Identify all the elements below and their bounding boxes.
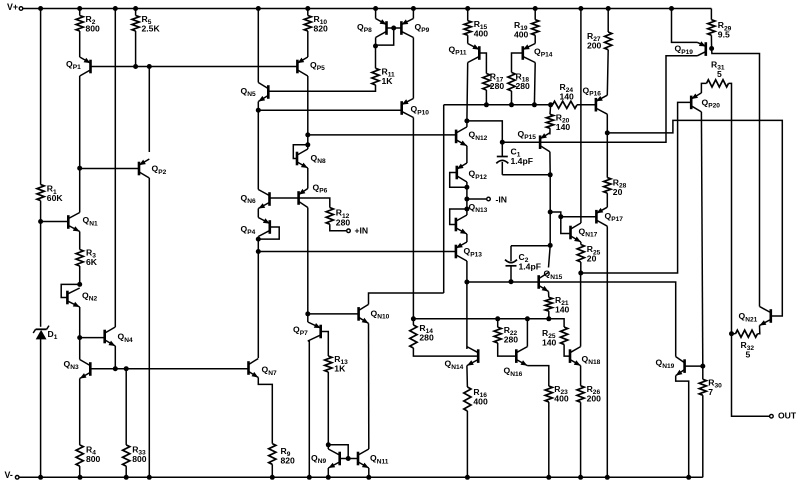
- terminal V-: [15, 476, 19, 480]
- wire node to QP7 emitter: [307, 314, 309, 322]
- transistor QN21: [769, 309, 772, 323]
- transistor QP6: [297, 191, 300, 205]
- junction on V+ rail: [133, 6, 138, 11]
- wire V- bottom rail: [17, 476, 703, 478]
- transistor QP9: [400, 21, 403, 35]
- wire R16 to V- rail: [466, 411, 468, 477]
- svg-text:N3: N3: [70, 364, 79, 371]
- wire R29 to QP19 base node: [710, 35, 712, 48]
- wire QN18 collector up to node: [580, 273, 582, 347]
- wire column to QN15 collector: [549, 245, 551, 267]
- wire node to R20: [549, 105, 552, 115]
- wire QN13 emitter to QP13 emitter: [466, 234, 468, 242]
- wire R19 to QP14 emitter: [534, 35, 536, 43]
- wire R4 to V- rail: [79, 466, 81, 477]
- wire QP2 collector to V- rail: [148, 178, 150, 477]
- wire QP10 base line: [258, 109, 401, 111]
- svg-text:P14: P14: [541, 52, 553, 59]
- node R14 top / bus: [411, 316, 416, 321]
- junction on V- rail: [147, 475, 152, 480]
- node R1 bottom / QN1 base: [38, 219, 43, 224]
- wire V+ rail to R2: [79, 9, 81, 16]
- node R17 bottom on bus: [484, 102, 489, 107]
- wire R17 to bus: [485, 90, 487, 105]
- wire QP11 collector down: [466, 63, 469, 121]
- svg-text:N4: N4: [124, 337, 133, 344]
- svg-text:N9: N9: [318, 458, 327, 465]
- svg-text:200: 200: [587, 40, 602, 50]
- wire QP4 base loop: [258, 227, 279, 239]
- wire node to QN8 node: [307, 135, 309, 145]
- node QN4 emitter / QN3 base: [113, 366, 118, 371]
- svg-text:820: 820: [281, 455, 296, 465]
- wire QP12 collector stub: [466, 182, 468, 187]
- junction on V+ rail: [305, 6, 310, 11]
- wire node to -IN node: [466, 187, 468, 199]
- wire down to QN17 base: [561, 217, 571, 234]
- wire QP17 collector to V- rail: [606, 226, 608, 477]
- wire QN16 collector up: [526, 319, 528, 347]
- svg-text:N17: N17: [585, 232, 597, 239]
- junction on V- rail: [605, 475, 610, 480]
- wire QN8 base loop: [293, 145, 308, 159]
- wire QN6 emitter to QP4: [257, 209, 259, 218]
- junction on V- rail: [326, 475, 331, 480]
- wire R5 to QP1 base line: [135, 31, 137, 67]
- wire V+ rail to QP8 emitter: [375, 9, 377, 19]
- transistor QN3: [89, 362, 92, 376]
- svg-text:1K: 1K: [334, 363, 346, 373]
- resistor R23: [545, 386, 552, 402]
- wire up to y104.8 bus: [443, 105, 445, 293]
- transistor QP5: [296, 60, 299, 74]
- junction on V- rail: [78, 475, 83, 480]
- wire R27 to QP16 emitter: [606, 50, 609, 95]
- wire R32 left lead: [732, 333, 736, 335]
- wire QN16 emitter to R23: [527, 366, 548, 387]
- node C1 / QP15 collector: [548, 172, 553, 177]
- resistor R20: [546, 114, 553, 128]
- resistor R19: [532, 20, 539, 36]
- capacitor C1: [497, 156, 508, 158]
- junction on V+ rail: [373, 6, 378, 11]
- node QN19 base / R30: [700, 364, 705, 369]
- wire R10 to QP5 emitter: [307, 31, 309, 57]
- wire node to R30: [702, 366, 704, 379]
- wire QP15 collector column: [549, 175, 551, 212]
- wire V+ rail to R5: [135, 9, 137, 16]
- wire QN3 emitter to R4: [79, 379, 81, 445]
- svg-text:N13: N13: [475, 207, 487, 214]
- wire QN6-QP6 base line to R12: [270, 198, 330, 208]
- wire V+ rail to R1: [40, 9, 42, 185]
- wire QP9 base stub: [394, 27, 402, 29]
- wire QP4 collector to QP13 base node: [257, 237, 259, 252]
- node QP6 collector / QN10 base: [305, 311, 310, 316]
- resistor R22: [494, 327, 501, 343]
- wire QN2 emitter down: [79, 307, 81, 338]
- resistor R27: [605, 32, 612, 50]
- resistor R17: [483, 74, 490, 91]
- transistor QP8: [385, 21, 388, 35]
- svg-text:6K: 6K: [86, 257, 98, 267]
- resistor R5: [132, 16, 139, 32]
- svg-text:P11: P11: [455, 50, 467, 57]
- wire QN21 emitter to R32: [758, 326, 760, 334]
- wire V+ rail to R15: [467, 9, 469, 21]
- svg-text:P1: P1: [73, 64, 81, 71]
- wire bus to QP15 base: [502, 141, 540, 143]
- node R21 R25 bus: [546, 316, 551, 321]
- wire QN1 emitter to R3: [79, 232, 81, 250]
- wire bus y318.8: [413, 318, 548, 320]
- wire R22 to QN16 base: [498, 343, 517, 356]
- resistor R30: [699, 379, 706, 395]
- junction on V+ rail: [533, 6, 538, 11]
- wire R15 to QP11 emitter: [467, 35, 469, 43]
- svg-text:N5: N5: [247, 91, 256, 98]
- node QP19 base R29: [709, 46, 714, 51]
- svg-text:820: 820: [314, 23, 329, 33]
- svg-text:V-: V-: [5, 470, 13, 480]
- wire QN8 collector stub: [307, 145, 309, 149]
- svg-text:1.4pF: 1.4pF: [511, 156, 533, 166]
- wire base-line node to QP2 emitter: [148, 67, 150, 153]
- svg-text:N1: N1: [89, 220, 98, 227]
- wire QP7 base to R13: [321, 332, 329, 357]
- wire QP10 collector down to R14 node: [412, 118, 414, 319]
- transistor QP15: [539, 135, 542, 149]
- node R33 top: [124, 366, 129, 371]
- svg-text:P17: P17: [611, 216, 623, 223]
- node QP2 emitter branch: [147, 64, 152, 69]
- svg-text:P2: P2: [158, 169, 166, 176]
- wire QP6 collector down to QP7 node: [307, 208, 309, 314]
- transistor QN9: [338, 452, 341, 466]
- wire node to D1: [40, 222, 42, 327]
- svg-text:2.5K: 2.5K: [142, 23, 161, 33]
- svg-text:N21: N21: [745, 316, 757, 323]
- transistor QP7: [319, 325, 322, 339]
- resistor R29: [708, 20, 715, 36]
- node R24 R20 bus: [548, 102, 553, 107]
- svg-text:P5: P5: [317, 65, 325, 72]
- svg-text:OUT: OUT: [778, 411, 797, 421]
- wire C1 bottom to QP15 collector: [502, 174, 550, 176]
- wire QN5 base to R11: [268, 85, 375, 91]
- svg-text:20: 20: [587, 254, 597, 264]
- wire R3 to QN2 node: [79, 266, 81, 284]
- wire R25 to QN18 base: [564, 344, 570, 356]
- transistor QN2: [66, 291, 69, 305]
- wire QP1 collector down: [79, 76, 81, 168]
- wire V+ rail corner to R29: [710, 9, 712, 20]
- svg-text:200: 200: [587, 393, 602, 403]
- node QP13 base line start: [256, 249, 261, 254]
- wire QN21 collector stub: [759, 305, 761, 307]
- svg-text:P6: P6: [319, 188, 327, 195]
- terminal V+: [19, 7, 23, 11]
- wire QP8/QP9 base tie: [376, 28, 394, 45]
- resistor R13: [325, 356, 332, 372]
- resistor R1: [37, 185, 44, 201]
- wire QP19 base to QN21 collector: [712, 49, 760, 306]
- junction on V- rail: [38, 475, 43, 480]
- resistor R25: [561, 327, 568, 344]
- transistor QN13: [455, 218, 458, 232]
- wire QN2 base loop: [61, 284, 79, 297]
- wire V+ rail to R27: [607, 9, 609, 33]
- wire V+ rail to R10: [307, 9, 309, 16]
- svg-text:800: 800: [86, 23, 101, 33]
- wire QP8 collector to node: [375, 38, 377, 47]
- wire QP9 collector to QP10 emitter: [412, 38, 414, 99]
- wire QP16 collector node to R28: [606, 133, 608, 178]
- wire QP16 collector down: [606, 114, 608, 133]
- transistor QN7: [247, 361, 250, 375]
- resistor R18: [508, 72, 515, 91]
- transistor QP17: [595, 210, 598, 224]
- wire QN9-QN11 base tie: [340, 458, 358, 460]
- wire node down to QN7 collector: [257, 252, 259, 359]
- terminal +IN: [347, 229, 351, 233]
- svg-text:1K: 1K: [382, 76, 394, 86]
- wire R23 to V- rail: [548, 402, 550, 477]
- wire QP13 base line: [258, 251, 456, 253]
- junction on V+ rail: [256, 6, 261, 11]
- wire R14 to QN14 base: [413, 348, 478, 356]
- junction on V+ rail: [669, 6, 674, 11]
- resistor R14: [410, 325, 417, 348]
- transistor QP16: [595, 98, 598, 112]
- svg-text:P8: P8: [364, 27, 372, 34]
- svg-text:280: 280: [490, 81, 505, 91]
- wire QP13 collector down: [466, 261, 468, 282]
- wire QN19 emitter to V- rail: [676, 376, 689, 478]
- wire QN10 base line: [308, 313, 359, 315]
- svg-text:N11: N11: [377, 458, 389, 465]
- wire QP16 collector to QN21 base: [607, 120, 782, 316]
- transistor QP14: [521, 46, 524, 60]
- junction on V- rail: [686, 475, 691, 480]
- wire y120.9 line to C1 corner: [467, 121, 502, 142]
- transistor QP2: [138, 162, 141, 176]
- svg-text:N10: N10: [377, 314, 389, 321]
- wire QN14 emitter to R16: [466, 366, 469, 387]
- svg-text:P16: P16: [589, 91, 601, 98]
- wire R20 to QP15 emitter: [549, 128, 551, 134]
- svg-text:5: 5: [746, 349, 751, 359]
- transistor QP1: [89, 60, 92, 74]
- wire node to R25: [549, 319, 564, 327]
- svg-text:N12: N12: [475, 135, 487, 142]
- transistor QP10: [400, 101, 403, 115]
- wire QN15 emitter to R21: [548, 292, 550, 298]
- resistor R26: [577, 386, 584, 402]
- wire node to R14: [412, 319, 414, 325]
- resistor R24: [553, 101, 578, 108]
- node R13 bottom / QN9 collector: [326, 442, 331, 447]
- terminal -IN: [487, 197, 491, 201]
- wire V+ rail to QN5 collector: [257, 9, 259, 83]
- node QP8 QP9 bases: [391, 26, 396, 31]
- wire R31 left to QP20 emitter: [701, 83, 706, 93]
- wire node to R22: [497, 319, 499, 327]
- svg-text:P12: P12: [475, 174, 487, 181]
- wire QN9 emitter to V- rail: [327, 468, 329, 477]
- node R31 R32 OUT: [729, 331, 734, 336]
- wire QP11 base to R17: [479, 53, 486, 74]
- wire QP1 base to QP5 base: [91, 66, 298, 68]
- wire node to QN13 node: [466, 199, 468, 209]
- wire QN13 collector stub: [466, 209, 468, 215]
- wire C2 top lead: [511, 245, 550, 247]
- transistor QN10: [357, 307, 360, 321]
- wire QN17 collector to V+ rail: [580, 9, 582, 224]
- svg-text:N2: N2: [89, 296, 98, 303]
- node QP13 collector / y282 line: [464, 280, 469, 285]
- node QP10 base branch: [256, 108, 261, 113]
- node QN2 emitter / QN4 base: [77, 335, 82, 340]
- wire y282 line: [467, 281, 539, 283]
- transistor QN18: [569, 349, 572, 363]
- node C2 top: [548, 243, 553, 248]
- junction on V- rail: [124, 475, 129, 480]
- resistor R11: [372, 68, 379, 85]
- svg-text:800: 800: [132, 454, 147, 464]
- wire QN9 collector stub: [327, 445, 329, 449]
- wire QP20 base: [581, 102, 691, 273]
- wire QN19 base line: [685, 365, 703, 367]
- wire R2 to QP1 emitter: [79, 31, 81, 57]
- svg-text:400: 400: [473, 396, 488, 406]
- node QP16 collector: [605, 130, 610, 135]
- resistor R4: [76, 445, 83, 466]
- wire V+ top rail: [21, 8, 711, 10]
- wire R9 to V- rail: [271, 464, 273, 477]
- junction on V+ rail: [113, 6, 118, 11]
- wire QP15 base bus to QP19 collector: [540, 62, 666, 143]
- wire bus y104.8: [444, 104, 551, 106]
- wire -IN lead: [467, 198, 486, 200]
- svg-text:400: 400: [514, 29, 529, 39]
- wire V+ rail to R19: [534, 9, 536, 20]
- resistor R33: [123, 445, 130, 466]
- node C1 top / base bus: [500, 140, 505, 145]
- junction on V+ rail: [411, 6, 416, 11]
- wire QN8 emitter to QP6 emitter: [307, 168, 309, 189]
- wire R18 to bus: [511, 91, 513, 105]
- wire R30 to V- rail end: [702, 395, 704, 477]
- svg-text:P10: P10: [417, 110, 429, 117]
- junction on V+ rail: [578, 6, 583, 11]
- svg-text:P7: P7: [300, 330, 308, 337]
- svg-text:5: 5: [717, 69, 722, 79]
- node R22 top: [495, 316, 500, 321]
- wire QN4 base line: [80, 337, 105, 339]
- junction on V+ rail: [38, 6, 43, 11]
- wire R25s to node: [580, 262, 582, 273]
- transistor QN15: [537, 275, 540, 289]
- transistor QN14: [477, 349, 480, 363]
- svg-text:280: 280: [419, 332, 434, 342]
- transistor QP19: [704, 42, 707, 56]
- svg-text:800: 800: [86, 454, 101, 464]
- wire QP7 collector to V- rail: [308, 341, 310, 477]
- wire QN18 emitter to R26: [580, 366, 582, 386]
- junction on V- rail: [307, 475, 312, 480]
- wire QN11 emitter to V- rail: [368, 468, 370, 477]
- transistor QN6: [268, 192, 271, 206]
- transistor QP4: [268, 220, 271, 234]
- transistor QN1: [67, 215, 70, 229]
- wire V+ rail to QP19 emitter: [672, 9, 698, 43]
- resistor R28: [604, 178, 611, 194]
- node QP8 collector-base: [373, 44, 378, 49]
- terminal OUT: [770, 414, 774, 418]
- wire QN12 collector stub: [466, 121, 468, 127]
- svg-text:N6: N6: [247, 198, 256, 205]
- transistor QN16: [515, 349, 518, 363]
- svg-text:V+: V+: [7, 2, 18, 12]
- resistor R25s: [577, 245, 584, 263]
- node QP17 base tap: [548, 210, 553, 215]
- node QP14 collector on bus: [532, 102, 537, 107]
- junction on V- rail: [546, 475, 551, 480]
- wire y282 line right to QN19: [539, 282, 676, 357]
- svg-text:N8: N8: [317, 158, 326, 165]
- node QP1 collector / QP2 base: [77, 166, 82, 171]
- wire R33 to V- rail: [125, 466, 127, 477]
- wire QN17 emitter to R25s: [580, 242, 582, 245]
- transistor QN19: [683, 359, 686, 373]
- svg-text:7: 7: [708, 387, 713, 397]
- svg-text:P20: P20: [708, 103, 720, 110]
- wire R28 to QP17 emitter: [606, 193, 608, 207]
- junction on V- rail: [366, 475, 371, 480]
- svg-text:140: 140: [556, 122, 571, 132]
- junction on V+ rail: [77, 6, 82, 11]
- wire R13 to node: [327, 372, 329, 445]
- svg-text:N14: N14: [451, 364, 463, 371]
- svg-text:9.5: 9.5: [718, 30, 730, 40]
- wire QN4 emitter to QN3 base node: [114, 346, 116, 369]
- wire R26 to V- rail: [580, 402, 582, 477]
- resistor R10: [304, 16, 311, 32]
- svg-text:P15: P15: [524, 134, 536, 141]
- svg-text:400: 400: [474, 28, 489, 38]
- junction on V+ rail: [606, 6, 611, 11]
- resistor R9: [269, 444, 276, 465]
- node R5 bottom: [133, 64, 138, 69]
- transistor QN5: [267, 85, 270, 99]
- svg-text:140: 140: [542, 337, 557, 347]
- wire node down to OUT: [732, 334, 770, 417]
- wire QN12 base line: [308, 134, 456, 136]
- wire R1 node to QN1 base: [41, 221, 69, 223]
- node -IN tap: [464, 197, 469, 202]
- wire R21 to bus node: [548, 311, 550, 319]
- svg-text:N15: N15: [550, 274, 562, 281]
- node QN12 collector: [464, 118, 469, 123]
- capacitor C2: [505, 260, 517, 263]
- node QN8 collector-base: [305, 142, 310, 147]
- transistor QP20: [690, 96, 693, 110]
- wire QP19 collector line: [666, 56, 698, 62]
- svg-text:N7: N7: [268, 370, 277, 377]
- resistor R32: [736, 330, 758, 337]
- node QN2 collector-base: [77, 282, 82, 287]
